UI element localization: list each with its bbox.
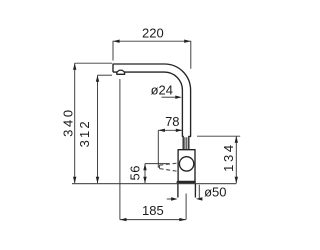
arrow 220 left (113, 40, 120, 43)
dim 78 extension (157, 130, 159, 168)
spout inner profile (113, 72, 183, 150)
svg-text:134: 134 (221, 145, 236, 172)
dim d50 left arrow tail (167, 198, 173, 200)
dim 78 line (158, 129, 182, 131)
arrow 78 right (176, 129, 183, 132)
svg-text:78: 78 (165, 114, 179, 129)
base flange (177, 181, 196, 183)
dim 312 extension (98, 74, 113, 76)
centerline / 185 right extension (185, 194, 187, 220)
dim 56 extension (145, 163, 170, 165)
arrow d50 right-pointing (171, 197, 178, 200)
arrow d24 (175, 96, 182, 99)
inner hose lines (185, 137, 187, 149)
arrow 185 left (120, 218, 127, 221)
arrow 312 up (96, 75, 99, 82)
svg-text:56: 56 (127, 166, 142, 181)
lever handle dashed (159, 163, 179, 171)
ball joint (179, 157, 193, 171)
dim d24 leader (162, 96, 177, 98)
dim 56 line (144, 164, 146, 184)
arrow 340 down (73, 177, 76, 184)
faucet outline (113, 64, 195, 198)
svg-text:312: 312 (77, 121, 92, 147)
shank right (194, 184, 196, 198)
arrow 56 down (143, 177, 146, 184)
lever top edge (159, 163, 179, 165)
dim 340 line (74, 63, 76, 183)
svg-text:185: 185 (142, 203, 164, 218)
arrow 220 right (184, 40, 191, 43)
arrow 134 up (235, 136, 238, 143)
arrow 134 down (235, 177, 238, 184)
aerator dome (117, 70, 124, 72)
svg-text:340: 340 (60, 110, 75, 137)
spout outer profile (113, 64, 191, 150)
dim 185 line (120, 219, 186, 221)
svg-text:ø50: ø50 (204, 184, 226, 199)
arrow 185 right (179, 218, 186, 221)
dim 312 line (97, 75, 99, 183)
arrowheads (73, 40, 238, 222)
body (178, 150, 195, 182)
arrow 56 up (143, 164, 146, 171)
arrow 312 down (96, 177, 99, 184)
lever bottom edge (160, 169, 178, 172)
arrow 78 left (158, 129, 165, 132)
dim 185 left extension (119, 79, 121, 220)
shank left (177, 184, 179, 198)
lever tip cap (158, 165, 160, 169)
dim 340 extension (75, 62, 112, 64)
svg-text:220: 220 (142, 25, 164, 40)
arrow 340 up (73, 63, 76, 70)
dim 134 line (235, 136, 237, 183)
dim d50 leader (198, 185, 200, 199)
arrow d50 left-pointing (196, 197, 203, 200)
countertop line (72, 183, 236, 185)
dim 134 extension (197, 135, 240, 137)
svg-text:ø24: ø24 (151, 83, 173, 98)
dim 220 extension+line (113, 41, 191, 68)
